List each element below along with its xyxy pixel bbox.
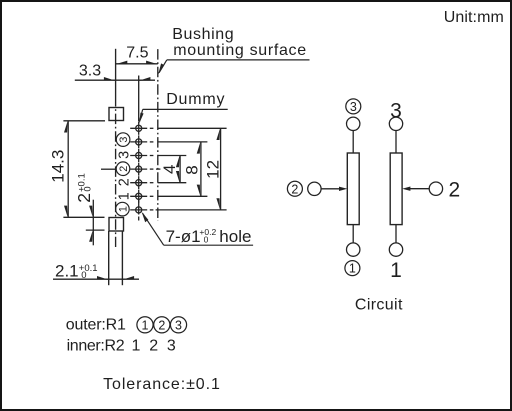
hole dummy [130,122,147,135]
resistor R2 (inner) body [390,153,402,225]
dimension 3.3 [75,63,155,81]
svg-text:outer:R1: outer:R1 [66,316,126,333]
svg-text:2: 2 [158,318,165,332]
hole no.3 inner [130,149,147,162]
R1 terminal 1 circle [347,243,360,256]
svg-text:2: 2 [74,193,94,203]
svg-text:1: 1 [131,337,140,354]
legend outer line [66,316,187,333]
svg-text:2: 2 [449,178,461,201]
circled label 1 (circuit) [345,261,360,276]
dimension 4 [160,156,180,183]
dimension 12 [203,128,222,210]
svg-text:0: 0 [83,186,94,191]
R1 wiper terminal 2 circle [308,182,321,195]
svg-text:2: 2 [149,337,158,354]
row terminal 1 outer [150,209,154,211]
R2 wiper terminal 2 circle [429,182,442,195]
svg-text:Unit:mm: Unit:mm [444,9,504,26]
svg-text:3: 3 [118,137,130,143]
wire R1 bottom [352,225,354,243]
svg-text:2: 2 [291,182,298,196]
hole label circled 3 [116,133,130,147]
shaft legs [109,231,123,285]
svg-text:mounting surface: mounting surface [173,42,306,59]
dimension 2.1 +0.1/0 [53,261,139,281]
legend circled 1 [137,317,153,333]
svg-text:2.1: 2.1 [55,261,79,280]
resistor R1 (outer) body [347,153,359,225]
svg-text:14.3: 14.3 [49,150,68,183]
svg-text:2: 2 [116,178,132,186]
wire R2 wiper with arrow [402,187,429,191]
svg-text:inner:R2: inner:R2 [67,337,125,354]
svg-text:3: 3 [390,100,402,123]
legend circled 2 [154,317,170,333]
R2 terminal 1 circle [389,243,402,256]
svg-text:4: 4 [160,165,179,174]
label Dummy with leader [139,91,228,124]
hole label circled 2 [116,162,130,176]
svg-text:hole: hole [219,227,251,246]
dimension 8 [183,142,202,196]
circled label 3 (circuit) [346,99,361,114]
svg-text:3: 3 [116,151,132,159]
centerline (main vertical axis) [115,49,117,247]
svg-text:Circuit: Circuit [355,297,403,314]
svg-text:1: 1 [390,259,402,282]
hole no.2 inner [130,176,147,189]
svg-text:3: 3 [350,100,357,114]
svg-text:Dummy: Dummy [166,91,224,108]
bushing square top [109,108,124,121]
7 terminal holes (circles with center ticks) [130,122,147,221]
svg-text:7.5: 7.5 [126,45,148,62]
hole no.2 outer [130,163,147,176]
svg-text:2: 2 [118,166,130,172]
dimension 2 +0.1/0 [74,173,104,245]
hole row centerline dashes and dimension extension rows [150,128,227,210]
hole no.3 outer [130,135,147,148]
wiper row tick left of centerline [101,168,116,170]
svg-text:3.3: 3.3 [79,63,101,80]
svg-text:1: 1 [118,206,130,212]
svg-text:1: 1 [349,262,356,276]
svg-text:12: 12 [203,160,222,179]
hole no.1 inner [130,190,147,203]
row terminal 3 inner [150,155,154,157]
hole-column extension line [138,76,140,122]
svg-text:0: 0 [81,270,86,281]
svg-text:7-ø1: 7-ø1 [166,227,201,246]
R1 terminal 3 circle [347,117,360,130]
hole label circled 1 [116,202,130,216]
R2 terminal 3 circle [389,117,402,130]
row terminal 2 inner [150,182,154,184]
svg-text:3: 3 [175,318,182,332]
bushing square bottom [109,218,124,232]
hole no.1 outer [130,200,147,221]
svg-text:1: 1 [116,192,132,200]
dimension 14.3 [49,121,106,218]
svg-text:Tolerance:±0.1: Tolerance:±0.1 [103,376,220,393]
svg-text:1: 1 [142,318,149,332]
bushing mounting surface centerline [157,49,159,221]
dimension 7.5 [116,45,158,65]
wire R2 top [395,131,397,154]
circled label 2 (circuit) [287,181,302,196]
row terminal 2 outer [150,168,154,170]
label 7-dia.1 +0.2/0 hole with leader [142,212,254,246]
legend circled 3 [170,317,186,333]
row terminal 3 outer [150,141,154,143]
svg-text:Bushing: Bushing [172,26,233,43]
label Bushing mounting surface with leader [158,26,309,74]
row terminal 1 inner [150,195,154,197]
svg-text:0: 0 [204,234,209,244]
svg-text:8: 8 [183,165,202,174]
legend inner line [67,337,176,354]
row dummy [150,127,154,129]
wire R2 bottom [395,225,397,243]
svg-text:3: 3 [167,337,176,354]
wire R1 top [352,131,354,154]
wire R1 wiper with arrow [321,187,347,191]
